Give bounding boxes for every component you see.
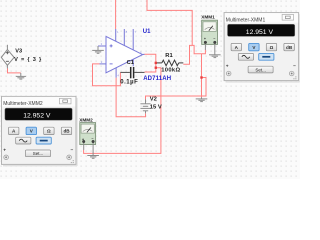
svg-text:dB: dB: [63, 129, 70, 134]
button DC mode (selected): [36, 137, 51, 144]
svg-text:15 V: 15 V: [150, 104, 162, 110]
instrument icon XMM2: [80, 123, 96, 145]
display reading 12.951 V: [228, 24, 295, 36]
ground at op-amp + input: [92, 46, 104, 53]
multimeter XMM2 window frame: [2, 96, 78, 166]
button AC mode: [16, 137, 31, 144]
wire: op-amp output down to C1 right: [144, 54, 156, 72]
op-amp input plus sign: [110, 44, 113, 64]
svg-text:C1: C1: [127, 60, 135, 66]
wire: output node to XMM2 plus terminal: [84, 68, 161, 154]
button A (current): [9, 127, 19, 134]
svg-text:Ω: Ω: [47, 129, 51, 134]
voltage source V3: [1, 45, 14, 69]
ground near V2 (supply ground): [196, 97, 208, 101]
junction node at ground net: [200, 76, 202, 78]
resize grip: [293, 76, 296, 79]
wire: ground node down to ground symbol: [201, 78, 203, 98]
svg-text:Set...: Set...: [33, 151, 44, 156]
svg-text:XMM1: XMM1: [201, 14, 215, 19]
wire: top-right from edge down to node: [147, 0, 192, 45]
svg-text:−: −: [71, 148, 74, 153]
XMM2 plus lead: [83, 143, 85, 150]
battery V2: [140, 99, 150, 113]
XMM2 minus lead: [92, 143, 94, 155]
ground below V3: [16, 73, 26, 79]
wire: R1 right lead to XMM1 plus terminal: [183, 45, 205, 64]
op-amp U1 triangle: [106, 36, 143, 72]
svg-text:Multimeter-XMM1: Multimeter-XMM1: [226, 17, 266, 23]
svg-text:12.951 V: 12.951 V: [246, 29, 274, 36]
svg-text:12.952 V: 12.952 V: [23, 113, 51, 120]
svg-text:−: −: [293, 65, 296, 70]
svg-text:Ω: Ω: [270, 45, 274, 50]
wire: top-left vertical to op-amp top pin: [115, 0, 117, 29]
wire: op-amp inverting input loop to C1 left: [93, 64, 121, 86]
button V (voltage, selected): [249, 43, 259, 50]
svg-text:V = { 3 }: V = { 3 }: [14, 57, 42, 63]
wire: XMM1 net down to ground node: [201, 54, 203, 78]
title bar icon: [60, 98, 72, 104]
junction node at XMM2 branch: [155, 67, 157, 69]
wire: V2 top to ground node: [146, 78, 207, 100]
svg-text:dB: dB: [286, 45, 293, 50]
svg-text:+: +: [3, 148, 6, 153]
resize grip: [71, 160, 74, 163]
canvas background: [0, 0, 300, 179]
op-amp pins: [98, 29, 145, 78]
button Set...: [248, 66, 273, 73]
input jack positive: [226, 71, 231, 76]
svg-text:100kΩ: 100kΩ: [161, 68, 180, 74]
resistor R1: [157, 60, 183, 66]
instrument icon XMM1: [202, 20, 218, 44]
wire: V3 negative to ground: [8, 68, 21, 73]
XMM1 minus lead: [214, 44, 216, 55]
junction node at R1 left: [155, 62, 157, 64]
button dB: [61, 127, 71, 134]
ground below XMM1: [209, 55, 221, 58]
input jack negative: [67, 155, 72, 160]
svg-text:R1: R1: [165, 53, 173, 59]
button Ohm (resistance): [266, 43, 276, 50]
svg-text:AD711AH: AD711AH: [143, 76, 171, 82]
title bar icon: [282, 15, 294, 21]
button DC mode (selected): [259, 53, 274, 60]
capacitor C1: [120, 71, 144, 73]
wire: output node stub to R1 left: [156, 62, 157, 64]
ground below XMM2: [87, 156, 99, 159]
button V (voltage, selected): [26, 127, 36, 134]
button dB: [284, 43, 294, 50]
svg-text:Set...: Set...: [255, 67, 266, 72]
button A (current): [231, 43, 241, 50]
svg-text:U1: U1: [143, 29, 151, 35]
svg-text:+: +: [226, 65, 229, 70]
op-amp pin number marks: [101, 30, 142, 78]
button Ohm (resistance): [44, 127, 54, 134]
svg-text:Multimeter-XMM2: Multimeter-XMM2: [3, 101, 43, 107]
svg-text:XMM2: XMM2: [79, 117, 93, 122]
svg-text:0.1µF: 0.1µF: [120, 80, 138, 86]
wire: op-amp V- pin to V2 bottom: [116, 78, 145, 117]
input jack positive: [4, 155, 9, 160]
svg-text:V3: V3: [15, 48, 22, 54]
svg-text:V2: V2: [150, 96, 157, 102]
button AC mode: [238, 53, 253, 60]
svg-text:+: +: [204, 37, 206, 41]
XMM1 plus lead: [204, 44, 206, 50]
input jack negative: [289, 71, 294, 76]
button Set...: [26, 150, 51, 157]
display reading 12.952 V: [5, 108, 72, 120]
multimeter XMM1 window frame: [224, 13, 300, 83]
